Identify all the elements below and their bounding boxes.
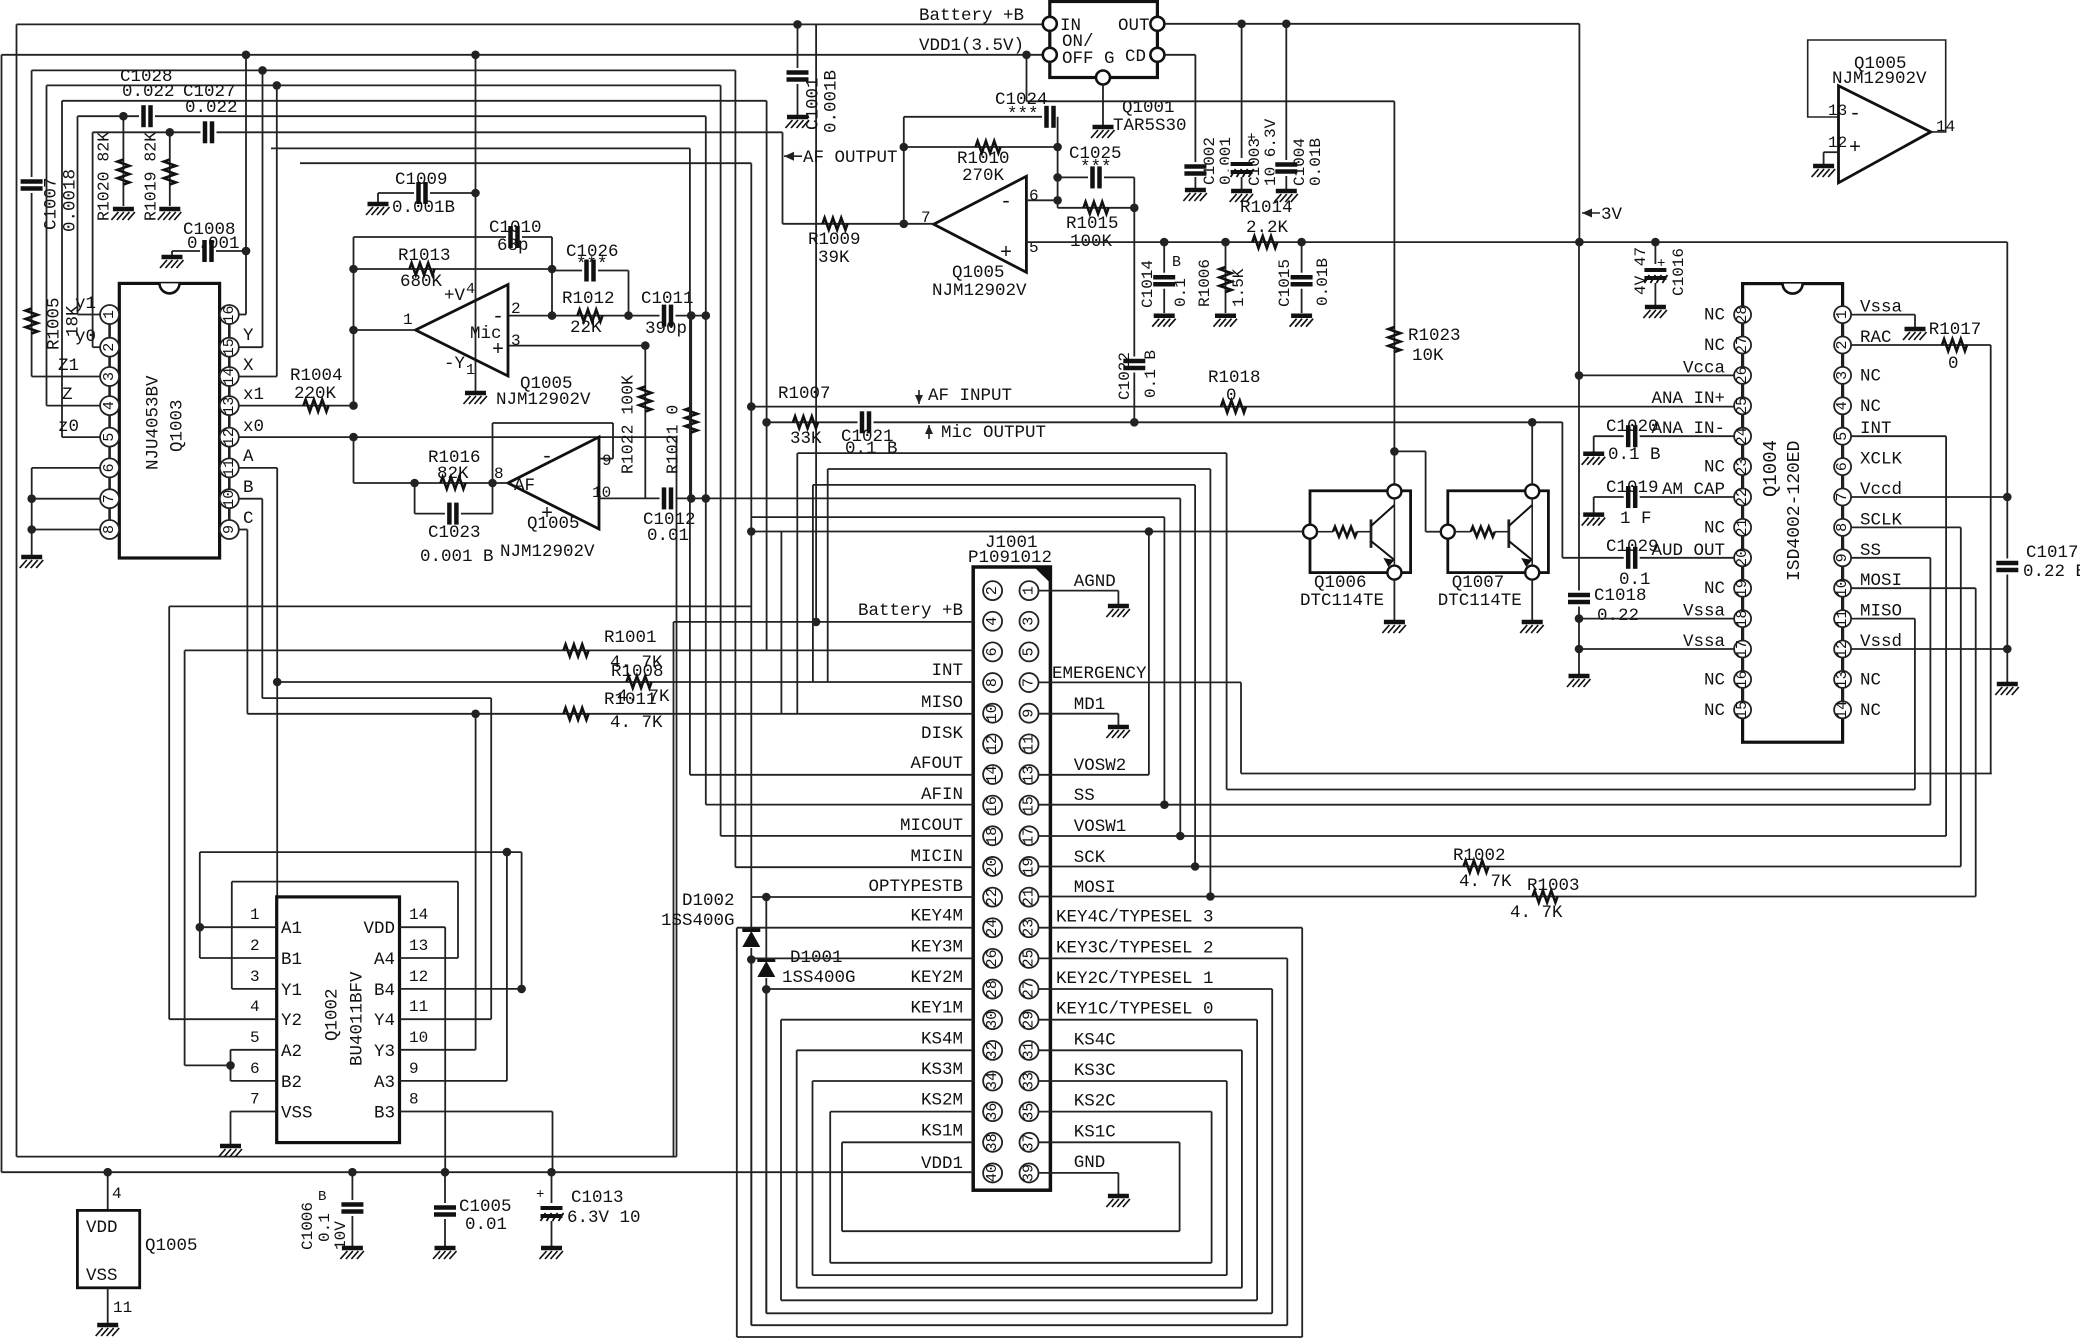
wire Vssd xyxy=(1851,648,2007,650)
svg-text:EMERGENCY: EMERGENCY xyxy=(1052,664,1147,684)
svg-text:NJU4053BV: NJU4053BV xyxy=(144,375,164,470)
capacitor C1010 xyxy=(506,225,522,249)
svg-text:A1: A1 xyxy=(281,919,302,939)
wire MISO net xyxy=(247,713,973,715)
svg-text:9: 9 xyxy=(602,452,612,470)
wire R1023 branch xyxy=(1393,101,1395,484)
svg-text:C1016: C1016 xyxy=(1670,248,1688,296)
svg-text:C1007: C1007 xyxy=(42,177,62,230)
wire mic pin2 net xyxy=(508,315,706,317)
svg-text:18: 18 xyxy=(1734,610,1751,628)
svg-text:8: 8 xyxy=(494,465,504,483)
svg-text:27: 27 xyxy=(1734,336,1751,354)
svg-text:22K: 22K xyxy=(570,318,602,338)
J1001 pin 1 xyxy=(1020,581,1039,600)
svg-text:13: 13 xyxy=(1834,670,1851,688)
svg-text:1: 1 xyxy=(101,310,118,319)
wire stair MOSI xyxy=(1209,469,1211,897)
svg-text:4: 4 xyxy=(101,401,118,410)
svg-text:8: 8 xyxy=(409,1091,419,1109)
svg-text:4. 7K: 4. 7K xyxy=(610,653,663,673)
svg-text:15: 15 xyxy=(1734,701,1751,719)
svg-text:OUT: OUT xyxy=(1118,16,1150,36)
svg-text:16: 16 xyxy=(1734,670,1751,688)
wire R1010 net xyxy=(904,146,1058,148)
svg-text:C1011: C1011 xyxy=(641,289,694,309)
wire mic in vertical xyxy=(353,237,355,406)
Q1001 pin xyxy=(1043,48,1057,62)
svg-text:C1029: C1029 xyxy=(1606,537,1659,557)
resistor R1022 xyxy=(639,387,651,412)
svg-text:TAR5S30: TAR5S30 xyxy=(1113,116,1187,136)
svg-text:31: 31 xyxy=(1021,1041,1038,1059)
svg-text:AF: AF xyxy=(514,476,535,496)
ground R1019 xyxy=(158,209,182,220)
svg-text:R1001: R1001 xyxy=(604,628,657,648)
wire right rail xyxy=(2006,242,2008,682)
svg-text:0.1: 0.1 xyxy=(1172,278,1190,307)
resistor R1020 xyxy=(117,160,129,185)
svg-text:R1014: R1014 xyxy=(1240,198,1293,218)
wire A2 xyxy=(231,1049,277,1051)
svg-text:Q1005: Q1005 xyxy=(145,1236,198,1256)
svg-text:29: 29 xyxy=(1021,1011,1038,1029)
svg-text:10: 10 xyxy=(592,484,611,502)
svg-text:13: 13 xyxy=(221,397,238,415)
svg-text:33: 33 xyxy=(1021,1072,1038,1090)
wire riser misc xyxy=(780,531,782,714)
svg-text:15: 15 xyxy=(221,338,238,356)
J1001 pin 37 xyxy=(1020,1133,1039,1152)
wire z0/MicOUT net xyxy=(62,100,767,102)
svg-text:1: 1 xyxy=(1021,586,1038,595)
Q1004 pin 14 xyxy=(1834,701,1851,719)
J1001 pin 3 xyxy=(1020,612,1039,631)
svg-text:R1004: R1004 xyxy=(290,366,343,386)
svg-text:4. 7K: 4. 7K xyxy=(610,713,663,733)
svg-text:VDD: VDD xyxy=(86,1218,118,1238)
svg-text:DTC114TE: DTC114TE xyxy=(1438,591,1522,611)
wire R1006 branch xyxy=(1225,242,1227,313)
capacitor C1018 xyxy=(1567,591,1591,607)
svg-text:R1002: R1002 xyxy=(1453,846,1506,866)
wire KS4M loop xyxy=(797,1049,974,1051)
svg-text:NC: NC xyxy=(1704,701,1725,721)
J1001 pin 33 xyxy=(1020,1072,1039,1091)
wire x1 net xyxy=(239,405,354,407)
svg-text:R1019 82K: R1019 82K xyxy=(141,132,160,221)
svg-text:KS2M: KS2M xyxy=(921,1091,963,1111)
svg-text:82K: 82K xyxy=(437,464,469,484)
capacitor C1015 xyxy=(1290,273,1314,289)
wire OPTYPESTB riser xyxy=(750,163,752,1325)
Q1004 pin 21 xyxy=(1734,518,1751,536)
ground Q1002 VSS xyxy=(219,1146,243,1157)
J1001 pin 20 xyxy=(983,857,1002,876)
svg-text:10V: 10V xyxy=(332,1221,350,1250)
svg-text:12: 12 xyxy=(1834,640,1851,658)
svg-text:12: 12 xyxy=(1828,134,1847,152)
svg-text:VDD: VDD xyxy=(363,919,395,939)
svg-text:68p: 68p xyxy=(497,236,529,256)
svg-text:15: 15 xyxy=(1021,796,1038,814)
svg-text:16: 16 xyxy=(984,796,1001,814)
svg-text:39: 39 xyxy=(1021,1164,1038,1182)
Q1003 pin 8 xyxy=(100,520,119,539)
svg-text:36: 36 xyxy=(984,1103,1001,1121)
wire stair SCK xyxy=(1194,485,1196,867)
wire y0/AF OUTPUT net xyxy=(93,131,783,133)
wire AFOUT net xyxy=(271,147,690,149)
svg-text:AF INPUT: AF INPUT xyxy=(928,386,1012,406)
IC Q1002 BU4011BFV xyxy=(277,897,400,1143)
svg-text:NC: NC xyxy=(1860,701,1881,721)
capacitor C1022 xyxy=(1122,357,1146,373)
svg-text:7: 7 xyxy=(250,1091,260,1109)
svg-text:MISO: MISO xyxy=(921,693,963,713)
wire Battery to pin4 xyxy=(674,621,974,623)
svg-text:P1091012: P1091012 xyxy=(968,548,1052,568)
ground R1020 xyxy=(111,209,134,220)
J1001 pin 28 xyxy=(983,980,1002,999)
svg-text:C1017: C1017 xyxy=(2026,543,2079,563)
wire AFOUT xyxy=(690,774,974,776)
svg-text:8: 8 xyxy=(1834,523,1851,532)
J1001 pin 6 xyxy=(983,642,1002,661)
J1001 pin 16 xyxy=(983,796,1002,815)
wire Y1 top xyxy=(232,881,458,883)
resistor R1015 xyxy=(1084,202,1109,214)
svg-text:20: 20 xyxy=(1734,549,1751,567)
wire stair VOSW1 xyxy=(1179,498,1181,836)
svg-text:0.01B: 0.01B xyxy=(1307,138,1325,186)
wire KEY2M loop xyxy=(766,988,973,990)
wire VOSW2 xyxy=(1039,774,1149,776)
svg-text:12: 12 xyxy=(409,968,428,986)
Q1004 pin 16 xyxy=(1734,670,1751,688)
svg-text:KEY2C/TYPESEL 1: KEY2C/TYPESEL 1 xyxy=(1056,969,1214,989)
J1001 pin 22 xyxy=(983,888,1002,907)
svg-text:4: 4 xyxy=(250,998,260,1016)
IC Q1003 NJU4053BV body xyxy=(119,283,219,558)
wire R1021 branch xyxy=(690,316,692,499)
ground Q1003 pins xyxy=(20,557,44,568)
svg-text:KS3C: KS3C xyxy=(1074,1061,1116,1081)
ground C1013 xyxy=(540,1248,564,1259)
wire AFIN xyxy=(706,804,974,806)
diode D1002 1SS400G xyxy=(741,928,761,948)
svg-text:AF OUTPUT: AF OUTPUT xyxy=(803,148,898,168)
svg-text:6: 6 xyxy=(1834,462,1851,471)
svg-text:+V: +V xyxy=(444,286,466,306)
svg-text:14: 14 xyxy=(409,906,428,924)
wire C1009 net xyxy=(378,192,476,194)
capacitor C1026 xyxy=(582,259,598,283)
svg-text:KS3M: KS3M xyxy=(921,1060,963,1080)
svg-text:BU4011BFV: BU4011BFV xyxy=(348,971,368,1066)
wire A net xyxy=(239,467,277,469)
svg-text:10: 10 xyxy=(1834,579,1851,597)
resistor R1018 xyxy=(1221,401,1246,413)
wire Y2 to riser net xyxy=(169,605,751,607)
svg-text:KS2C: KS2C xyxy=(1074,1092,1116,1112)
wire R1016 net xyxy=(354,482,493,484)
svg-text:KEY4M: KEY4M xyxy=(910,907,963,927)
J1001 pin 40 xyxy=(983,1163,1002,1182)
resistor R1002 xyxy=(1464,861,1489,873)
wire MD1 xyxy=(1039,713,1119,715)
svg-text:NJM12902V: NJM12902V xyxy=(1832,69,1927,89)
wire Vcca/Vssa riser xyxy=(1578,242,1580,674)
wire EMERGENCY to RAC xyxy=(1241,773,1992,775)
svg-text:6.3V 10: 6.3V 10 xyxy=(567,1208,641,1228)
wire VDD1 rail xyxy=(2,54,1044,56)
svg-text:28: 28 xyxy=(1734,306,1751,324)
svg-text:KS1M: KS1M xyxy=(921,1121,963,1141)
resistor R1023 xyxy=(1388,327,1400,352)
capacitor C1023 loop xyxy=(414,483,416,514)
resistor R1005 xyxy=(26,309,38,334)
wire C1013 branch xyxy=(551,1172,553,1246)
Q1003 pin 1 xyxy=(100,305,119,324)
svg-text:Y3: Y3 xyxy=(374,1042,395,1062)
svg-text:KEY3C/TYPESEL 2: KEY3C/TYPESEL 2 xyxy=(1056,938,1214,958)
wire Mic OUTPUT net xyxy=(767,421,1563,423)
wire Q1007 emitter gnd xyxy=(1531,580,1533,620)
wire mic output pin1 xyxy=(354,329,416,331)
svg-text:40: 40 xyxy=(984,1164,1001,1182)
wire x0 riser xyxy=(676,437,678,1157)
Q1003 pin 4 xyxy=(100,396,119,415)
svg-text:NC: NC xyxy=(1704,336,1725,356)
svg-text:19: 19 xyxy=(1734,579,1751,597)
svg-text:0.1: 0.1 xyxy=(1619,570,1651,590)
capacitor C1025 xyxy=(1088,165,1104,189)
svg-text:9: 9 xyxy=(1834,553,1851,562)
IC Q1005 supply box xyxy=(77,1210,139,1287)
svg-text:0.01B: 0.01B xyxy=(1314,258,1332,306)
svg-text:R1015: R1015 xyxy=(1066,214,1119,234)
wire AGND xyxy=(1039,590,1119,592)
wire C1004 branch xyxy=(1285,24,1287,160)
svg-text:C1015: C1015 xyxy=(1276,259,1294,307)
svg-text:13: 13 xyxy=(1828,102,1847,120)
capacitor C1021 xyxy=(858,410,874,434)
svg-text:R1023: R1023 xyxy=(1408,326,1461,346)
svg-text:NC: NC xyxy=(1860,670,1881,690)
wire VDD xyxy=(400,926,446,928)
svg-text:21: 21 xyxy=(1021,888,1038,906)
svg-text:INT: INT xyxy=(931,661,963,681)
svg-text:R1021 0: R1021 0 xyxy=(663,405,682,474)
wire RAC xyxy=(1851,344,1991,346)
ground U4 pin12 xyxy=(1812,166,1836,177)
svg-text:2: 2 xyxy=(1834,340,1851,349)
J1001 pin 36 xyxy=(983,1102,1002,1121)
J1001 pin 34 xyxy=(983,1072,1002,1091)
svg-text:NC: NC xyxy=(1704,306,1725,326)
svg-text:34: 34 xyxy=(984,1072,1001,1090)
wire INT isd xyxy=(1851,435,1946,437)
junction C1001 tap xyxy=(793,20,802,29)
wire C1005 branch xyxy=(444,1172,446,1246)
resistor R1010 xyxy=(976,141,1001,153)
J1001 pin 32 xyxy=(983,1041,1002,1060)
svg-text:MOSI: MOSI xyxy=(1074,878,1116,898)
svg-text:9: 9 xyxy=(409,1060,419,1078)
svg-text:Q1007: Q1007 xyxy=(1452,573,1505,593)
svg-text:SCK: SCK xyxy=(1074,848,1106,868)
capacitor C1004 xyxy=(1274,160,1298,176)
op-amp U4 Q1005 xyxy=(1839,86,1931,183)
svg-text:DTC114TE: DTC114TE xyxy=(1300,591,1384,611)
svg-text:21: 21 xyxy=(1734,518,1751,536)
svg-text:26: 26 xyxy=(1734,366,1751,384)
svg-text:12: 12 xyxy=(221,428,238,446)
junction Q1007 base tee xyxy=(1390,447,1399,456)
svg-text:1: 1 xyxy=(403,311,413,329)
svg-text:7: 7 xyxy=(1834,492,1851,501)
svg-text:4: 4 xyxy=(466,281,475,298)
svg-text:-: - xyxy=(541,446,553,469)
wire stair MISO xyxy=(1226,453,1228,789)
svg-text:10: 10 xyxy=(409,1029,428,1047)
resistor R1001 xyxy=(564,644,589,656)
wire CD net xyxy=(1164,54,1195,56)
wire net xyxy=(300,162,751,164)
wire pin14 X xyxy=(239,376,277,378)
svg-text:5: 5 xyxy=(250,1029,260,1047)
wire C1025 net xyxy=(1058,176,1135,178)
Q1004 pin 2 xyxy=(1834,337,1851,354)
svg-text:B: B xyxy=(243,478,254,498)
wire INT net xyxy=(277,681,973,683)
wire ANA IN- xyxy=(1594,435,1734,437)
svg-text:5: 5 xyxy=(1021,647,1038,656)
wire VOSW1 xyxy=(1039,835,1946,837)
svg-text:13: 13 xyxy=(409,937,428,955)
capacitor C1002 xyxy=(1183,162,1207,178)
svg-text:0.1 B: 0.1 B xyxy=(1608,445,1661,465)
ground Q1007 xyxy=(1520,622,1544,633)
wire pin4 Z xyxy=(47,405,101,407)
svg-text:+: + xyxy=(536,1187,544,1203)
svg-text:Y4: Y4 xyxy=(374,1011,395,1031)
Q1004 pin 19 xyxy=(1734,579,1751,597)
wire AF INPUT net xyxy=(751,406,1734,408)
Q1003 pin 15 xyxy=(220,338,239,357)
wire Battery riser xyxy=(673,622,675,1157)
wire Y2 xyxy=(169,1018,277,1020)
svg-text:C1010: C1010 xyxy=(489,218,542,238)
svg-text:X: X xyxy=(243,356,254,376)
svg-text:9: 9 xyxy=(1021,709,1038,718)
svg-text:22: 22 xyxy=(984,888,1001,906)
capacitor C1003 xyxy=(1229,159,1255,177)
svg-text:27: 27 xyxy=(1021,980,1038,998)
svg-text:VDD1(3.5V): VDD1(3.5V) xyxy=(919,36,1024,56)
Q1004 pin 1 xyxy=(1834,306,1851,323)
resistor R1007 xyxy=(793,416,818,428)
wire opamp2 inv riser xyxy=(1057,117,1059,208)
svg-text:390p: 390p xyxy=(645,319,687,339)
svg-text:+: + xyxy=(1657,256,1665,272)
J1001 pin 4 xyxy=(983,612,1002,631)
svg-text:-: - xyxy=(492,306,504,329)
capacitor C1029 xyxy=(1624,546,1640,570)
ground Q1006 xyxy=(1382,622,1406,633)
svg-text:Mic OUTPUT: Mic OUTPUT xyxy=(941,423,1046,443)
svg-text:AGND: AGND xyxy=(1074,572,1116,592)
svg-text:C1001: C1001 xyxy=(804,77,824,130)
svg-text:KEY4C/TYPESEL 3: KEY4C/TYPESEL 3 xyxy=(1056,908,1214,928)
wire MICOUT riser xyxy=(720,85,722,836)
svg-text:A3: A3 xyxy=(374,1073,395,1093)
wire C1015 branch xyxy=(1301,242,1303,313)
svg-text:0.1 B: 0.1 B xyxy=(845,439,898,459)
wire OUT 3V rail xyxy=(1164,23,1579,25)
wire A1 xyxy=(200,926,277,928)
J1001 pin 39 xyxy=(1020,1163,1039,1182)
wire KEY4M loop xyxy=(737,927,974,929)
J1001 pin 25 xyxy=(1020,949,1039,968)
ground C1006 xyxy=(340,1248,364,1259)
Q1003 pin 3 xyxy=(100,367,119,386)
wire R1009 net xyxy=(783,223,934,225)
wire Vcca xyxy=(1579,374,1734,376)
svg-text:GND: GND xyxy=(1074,1153,1106,1173)
wire riser p8a xyxy=(812,485,814,682)
capacitor C1016 xyxy=(1642,265,1668,283)
J1001 pin 18 xyxy=(983,826,1002,845)
wire VSS xyxy=(231,1111,277,1113)
wire 3V mid rail xyxy=(1026,241,2007,243)
svg-text:14: 14 xyxy=(221,367,238,385)
svg-text:z0: z0 xyxy=(58,417,79,437)
connector J1001 body xyxy=(973,567,1050,1190)
wire pin16 xyxy=(239,314,246,316)
svg-text:***: *** xyxy=(1007,105,1039,125)
wire MOSI xyxy=(1039,896,1976,898)
wire KEY3M loop xyxy=(751,957,973,959)
svg-text:Q1002: Q1002 xyxy=(323,988,343,1041)
svg-text:10: 10 xyxy=(221,490,238,508)
svg-text:R1022 100K: R1022 100K xyxy=(618,375,637,474)
svg-text:270K: 270K xyxy=(962,166,1005,186)
ground Vssa pin1 xyxy=(1903,329,1927,340)
svg-text:0.22 B: 0.22 B xyxy=(2023,562,2080,582)
wire G to ground xyxy=(1102,85,1104,126)
svg-text:24: 24 xyxy=(1734,427,1751,445)
svg-text:NC: NC xyxy=(1704,518,1725,538)
svg-text:12: 12 xyxy=(984,735,1001,753)
svg-text:1: 1 xyxy=(466,362,475,379)
wire left bus 2 xyxy=(1,55,3,1172)
wire MicOUT riser xyxy=(766,101,768,651)
svg-text:R1020 82K: R1020 82K xyxy=(94,132,113,221)
svg-text:7: 7 xyxy=(1021,678,1038,687)
ground Q1005 VSS xyxy=(96,1325,120,1336)
J1001 pin 35 xyxy=(1020,1102,1039,1121)
op-amp U-AF Q1005 xyxy=(508,437,599,529)
svg-text:R1012: R1012 xyxy=(562,289,615,309)
wire A2B2 link xyxy=(185,1064,231,1066)
wire AUD OUT riser xyxy=(1561,422,1563,558)
svg-text:D1002: D1002 xyxy=(682,891,735,911)
capacitor C1006 xyxy=(340,1200,364,1216)
Q1003 pin 2 xyxy=(100,338,119,357)
svg-text:3V: 3V xyxy=(1601,205,1623,225)
